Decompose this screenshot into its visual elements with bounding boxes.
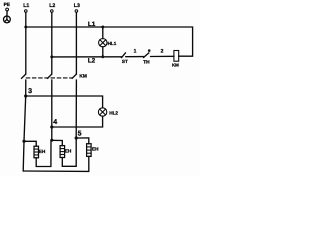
switch ST blade xyxy=(122,53,126,58)
wire EH2 bottom to L3 column xyxy=(62,138,76,166)
contactor KM linkage dashed xyxy=(26,77,72,79)
svg-text:L1: L1 xyxy=(88,21,96,28)
svg-text:L2: L2 xyxy=(88,58,96,65)
node EH1 top junction xyxy=(22,140,25,143)
wire TH to KM coil xyxy=(151,55,174,57)
wire HL1 top lead xyxy=(102,27,104,39)
wire EH3 bottom to bottom bus xyxy=(23,156,89,171)
svg-text:KM: KM xyxy=(172,63,179,68)
wire L2 control line to ST xyxy=(52,56,122,58)
wire EH2 top branch xyxy=(52,140,63,145)
wire L3 column upper xyxy=(75,13,77,74)
svg-text:2: 2 xyxy=(161,49,164,55)
contact TH blade xyxy=(144,53,149,58)
wire L2 column upper xyxy=(51,13,53,74)
svg-text:EH: EH xyxy=(92,146,99,151)
terminal L3 xyxy=(75,10,78,13)
svg-text:3: 3 xyxy=(28,88,32,95)
terminal L2 xyxy=(51,10,54,13)
node 3 junction xyxy=(24,94,27,97)
svg-text:4: 4 xyxy=(53,119,57,126)
terminal L1 xyxy=(25,10,28,13)
wire ST to TH xyxy=(126,56,143,58)
contactor KM main contact pole 3 blade xyxy=(72,74,76,78)
heater EH3 xyxy=(87,144,92,157)
wire HL2 bottom to node4 line xyxy=(52,116,103,127)
wire L3 column lower xyxy=(75,80,77,138)
heater EH1 xyxy=(34,146,39,158)
svg-text:L1: L1 xyxy=(23,3,29,9)
svg-text:TH: TH xyxy=(143,59,150,65)
wire L1 column to bottom left xyxy=(23,96,26,171)
wire node3 to HL2 xyxy=(26,96,103,108)
contact TH button dot xyxy=(148,49,151,52)
wire L1 control line xyxy=(26,27,193,56)
svg-text:EH: EH xyxy=(39,149,46,154)
svg-text:ST: ST xyxy=(122,59,128,64)
svg-text:L2: L2 xyxy=(49,3,55,9)
wire L1 column upper xyxy=(25,13,27,74)
svg-text:KM: KM xyxy=(79,74,86,80)
wire EH1 bottom to L2 column xyxy=(36,140,51,166)
wire EH1 top branch xyxy=(24,141,36,146)
node L1 tap junction xyxy=(24,26,27,29)
node 4 junction xyxy=(50,125,53,128)
svg-text:HL1: HL1 xyxy=(108,41,117,46)
svg-text:EH: EH xyxy=(65,148,72,153)
node HL1 bottom junction xyxy=(101,55,104,58)
wire L1 column lower xyxy=(25,80,27,96)
earth symbol xyxy=(4,16,11,23)
wire HL1 bottom lead xyxy=(102,47,104,57)
node HL1 top junction xyxy=(101,26,104,29)
lamp HL1 xyxy=(99,39,107,47)
svg-text:HL2: HL2 xyxy=(109,110,118,115)
svg-text:5: 5 xyxy=(78,131,82,138)
contactor KM main contact pole 2 blade xyxy=(48,74,52,78)
svg-text:PE: PE xyxy=(4,2,11,8)
svg-text:1: 1 xyxy=(134,49,137,55)
terminal PE xyxy=(6,8,9,11)
wire L2 column to junction xyxy=(51,127,53,140)
svg-text:L3: L3 xyxy=(74,3,80,9)
heater EH2 xyxy=(60,146,65,158)
lamp HL2 xyxy=(98,108,106,116)
wire PE stem xyxy=(6,11,8,16)
node 5 junction xyxy=(75,136,78,139)
contactor KM main contact pole 1 blade xyxy=(22,74,26,78)
wire L2 column lower xyxy=(51,80,53,127)
node L2 tap junction xyxy=(50,55,53,58)
coil KM xyxy=(174,51,179,62)
node L2-EH2 junction xyxy=(50,139,53,142)
wire EH3 top branch xyxy=(76,138,89,144)
